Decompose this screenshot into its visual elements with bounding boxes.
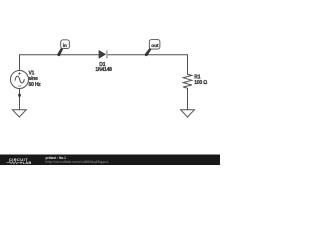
- CircuitLab logo: [7, 157, 32, 165]
- ground (left): [12, 110, 26, 117]
- svg-text:out: out: [151, 43, 159, 48]
- R1 labels (designator and value 100 Ohm): [194, 74, 207, 86]
- D1 labels (designator and value 1N4148): [95, 62, 112, 73]
- resistor R1: [183, 74, 192, 88]
- watermark bar: [0, 155, 220, 166]
- diode D1: [99, 50, 107, 58]
- wire from R1 bottom to ground: [187, 88, 189, 110]
- svg-text:LAB: LAB: [23, 160, 32, 165]
- net flag in: [57, 40, 70, 56]
- svg-text:100 Ω: 100 Ω: [194, 80, 207, 86]
- svg-text:in: in: [63, 43, 67, 48]
- net flag out: [145, 40, 160, 56]
- ground (right): [181, 110, 195, 117]
- junction below V1: [18, 94, 21, 97]
- voltage source V1: [11, 71, 29, 89]
- node out (junction dot): [145, 53, 148, 56]
- V1 labels (designator and value: sine 60 Hz): [29, 71, 42, 88]
- watermark text: [45, 156, 108, 164]
- svg-text:1N4148: 1N4148: [95, 67, 112, 73]
- node in (junction dot): [57, 53, 60, 56]
- svg-text:http://circuitlab.com/c4868kq6: http://circuitlab.com/c4868kq65qyux: [45, 160, 108, 164]
- wire from D1 cathode to R1 top: [108, 55, 188, 74]
- svg-text:60 Hz: 60 Hz: [29, 82, 42, 88]
- wire from V1 bottom to ground: [19, 88, 21, 110]
- wire from V1 top to D1 anode: [20, 55, 100, 71]
